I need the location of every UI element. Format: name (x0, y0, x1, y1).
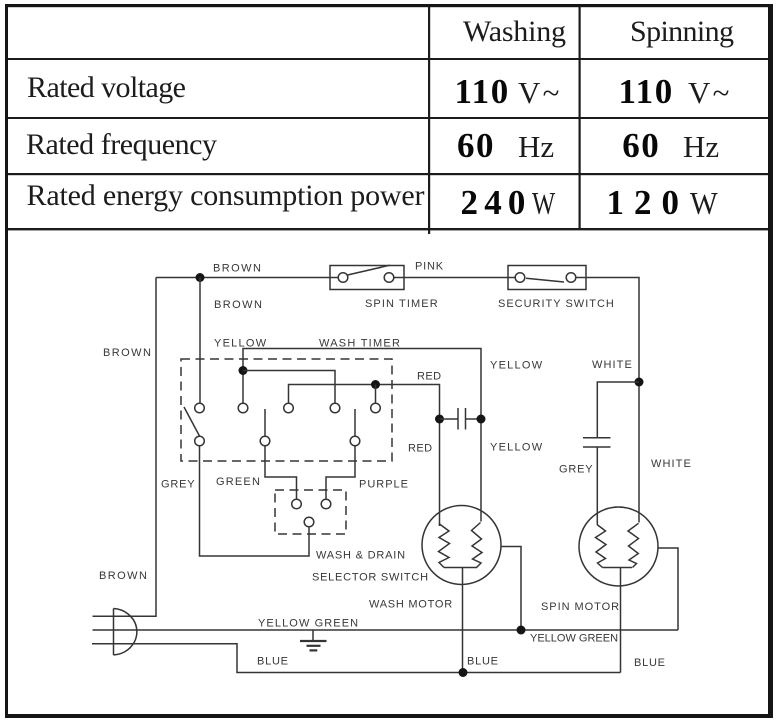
wire: security switch to white corner (576, 278, 639, 523)
svg-text:BROWN: BROWN (103, 347, 152, 359)
wire: grey d1 to selector (200, 446, 310, 556)
switch SPIN TIMER box (330, 266, 404, 290)
svg-text:WASH MOTOR: WASH MOTOR (369, 599, 453, 611)
svg-text:Rated energy consumption power: Rated energy consumption power (27, 179, 425, 212)
switch WASH TIMER blade (184, 407, 200, 436)
wire: spin motor tap to blue (620, 568, 622, 673)
svg-text:W: W (532, 187, 555, 222)
svg-text:V~: V~ (518, 75, 562, 110)
svg-text:GREY: GREY (559, 464, 593, 476)
svg-text:240: 240 (461, 183, 532, 222)
table grid lines (8, 7, 768, 234)
svg-text:YELLOW: YELLOW (490, 442, 543, 454)
switch SECURITY SWITCH box (508, 266, 586, 290)
switch SPIN TIMER contacts (338, 273, 348, 283)
node: junction brown (196, 273, 205, 282)
table header text (26, 15, 734, 222)
svg-text:Rated frequency: Rated frequency (26, 128, 217, 161)
svg-text:YELLOW: YELLOW (490, 360, 543, 372)
wire: red bus inside wash timer (289, 385, 440, 527)
wire labels (99, 261, 692, 670)
capacitor C1 plates (457, 408, 459, 430)
node: junction yellow green (517, 626, 526, 635)
svg-text:Rated voltage: Rated voltage (27, 71, 186, 104)
switch WASH TIMER bottom contacts d1-d3 (195, 436, 205, 446)
svg-text:SPIN TIMER: SPIN TIMER (365, 298, 439, 310)
wire: stem d3 (354, 409, 356, 436)
wire: stem contact c5 (375, 385, 377, 404)
svg-text:Hz: Hz (518, 129, 554, 164)
svg-text:WASH & DRAIN: WASH & DRAIN (316, 550, 406, 562)
svg-text:RED: RED (417, 371, 442, 383)
switch SECURITY SWITCH contacts (515, 273, 525, 283)
svg-text:SELECTOR SWITCH: SELECTOR SWITCH (312, 572, 429, 584)
switch WASH &amp; DRAIN SELECTOR dashed box (275, 490, 346, 534)
svg-text:SPIN MOTOR: SPIN MOTOR (541, 601, 620, 613)
wire: branch to contact c4 (243, 371, 335, 404)
node: junction white (635, 378, 644, 387)
wire: spin timer to security switch (394, 277, 515, 279)
motor WASH MOTOR winding bar (444, 567, 477, 569)
svg-text:120: 120 (607, 183, 690, 222)
svg-text:110: 110 (455, 72, 510, 111)
ground symbol (312, 630, 314, 640)
node: junction yellow capacitor (477, 415, 486, 424)
wire: stem d2 (264, 409, 266, 436)
svg-text:GREEN: GREEN (216, 476, 261, 488)
wire: brown left vertical to plug (93, 278, 157, 617)
plug P1 flat side (113, 609, 115, 656)
svg-text:YELLOW: YELLOW (214, 338, 267, 350)
motor SPIN MOTOR winding left (596, 525, 607, 568)
svg-text:Washing: Washing (463, 15, 566, 48)
motor SPIN MOTOR body (579, 507, 658, 586)
wire: green d2 to selector s1 (265, 446, 297, 499)
svg-text:110: 110 (619, 72, 674, 111)
svg-text:YELLOW GREEN: YELLOW GREEN (530, 633, 618, 645)
wire: spin motor right tap to yellow green (658, 548, 678, 630)
svg-text:BLUE: BLUE (257, 656, 289, 668)
svg-text:Hz: Hz (683, 129, 719, 164)
wire: brown drop to wash timer contact c1 (199, 278, 201, 404)
wire: capacitor C1 left lead (440, 418, 459, 420)
wire: yellow feed top (243, 349, 481, 522)
svg-text:PURPLE: PURPLE (359, 479, 409, 491)
node: junction yellow c2 (239, 366, 248, 375)
svg-text:BROWN: BROWN (214, 299, 263, 311)
svg-text:V~: V~ (688, 75, 732, 110)
svg-text:60: 60 (457, 126, 495, 165)
node: junction blue (459, 668, 468, 677)
plug P1 arc (114, 609, 137, 656)
switch SECURITY SWITCH blade (526, 278, 564, 282)
wire: main top line from plug corner to spin timer (156, 277, 338, 279)
svg-text:WHITE: WHITE (651, 458, 692, 470)
svg-text:RED: RED (408, 443, 433, 455)
svg-text:GREY: GREY (161, 479, 195, 491)
svg-text:BROWN: BROWN (213, 263, 262, 275)
motor WASH MOTOR winding left (439, 524, 450, 568)
svg-text:YELLOW GREEN: YELLOW GREEN (258, 618, 359, 630)
motor WASH MOTOR winding right (472, 523, 483, 568)
wire: yellow green main (93, 629, 679, 631)
motor WASH MOTOR body (422, 506, 501, 585)
svg-text:BLUE: BLUE (467, 656, 499, 668)
wire: capacitor C1 right lead (466, 418, 482, 420)
capacitor C2 plates (583, 437, 611, 439)
switch WASH TIMER dashed box (181, 359, 392, 461)
node: junction red c5 (371, 380, 380, 389)
wire: wash motor tap to blue (462, 568, 464, 673)
svg-text:W: W (690, 186, 718, 221)
wire: purple d3 to selector s2 (326, 446, 355, 499)
svg-text:WASH TIMER: WASH TIMER (319, 338, 401, 350)
switch SPIN TIMER blade (348, 265, 391, 275)
switch WASH TIMER top contacts c1-c5 (195, 403, 205, 413)
svg-text:Spinning: Spinning (630, 15, 734, 48)
wire: wash motor right tap to yellow green (501, 547, 521, 631)
wire: capacitor C2 to spin motor (596, 447, 598, 525)
svg-text:PINK: PINK (415, 261, 444, 273)
svg-text:60: 60 (622, 126, 660, 165)
svg-text:BROWN: BROWN (99, 570, 148, 582)
motor SPIN MOTOR winding right (628, 523, 639, 567)
svg-text:BLUE: BLUE (634, 657, 666, 669)
switch selector contacts (292, 499, 302, 509)
motor SPIN MOTOR winding bar (603, 567, 633, 569)
svg-text:WHITE: WHITE (592, 359, 633, 371)
wire: branch to capacitor C2 (597, 382, 639, 438)
svg-text:SECURITY SWITCH: SECURITY SWITCH (498, 298, 615, 310)
wire: blue from plug (92, 644, 621, 673)
node: junction red capacitor (435, 415, 444, 424)
